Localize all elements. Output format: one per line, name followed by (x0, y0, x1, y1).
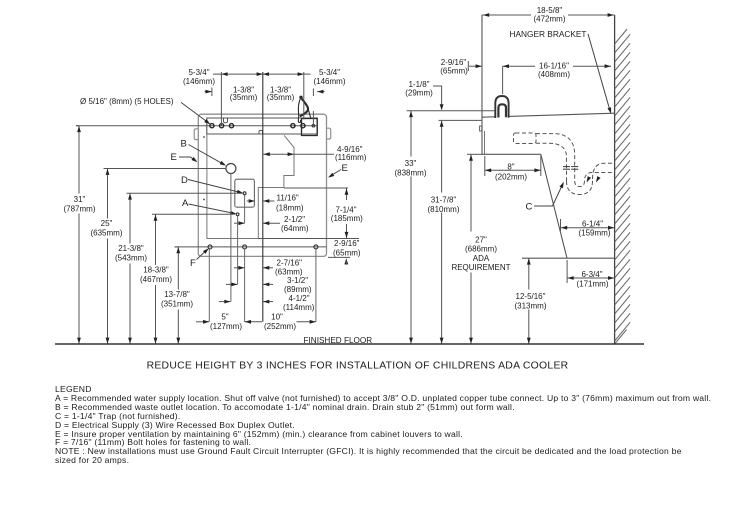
svg-text:2-1/2": 2-1/2" (284, 215, 305, 224)
svg-text:(635mm): (635mm) (90, 229, 122, 238)
extension from bolt hole F1 down (208, 249, 210, 322)
dimension 12-5/16 (528, 258, 530, 344)
bubbler base hook (298, 116, 300, 122)
union fittings on vertical pipe (563, 167, 578, 170)
svg-text:6-3/4": 6-3/4" (581, 270, 602, 279)
bolt hole F3 (314, 245, 318, 249)
svg-text:E: E (171, 152, 177, 163)
left dimension 31" (76, 125, 79, 127)
svg-text:(18mm): (18mm) (276, 203, 304, 212)
svg-text:(202mm): (202mm) (495, 173, 527, 182)
leader F (197, 250, 208, 260)
holes centerline through plate (76, 125, 317, 127)
leader hanger bracket (588, 34, 610, 111)
svg-text:REDUCE HEIGHT BY 3 INCHES FOR: REDUCE HEIGHT BY 3 INCHES FOR INSTALLATI… (147, 361, 569, 372)
wall hatching (615, 29, 631, 344)
svg-text:18-3/8": 18-3/8" (143, 266, 169, 275)
dimension 7-1/4 (284, 187, 348, 189)
leader E right (330, 170, 341, 177)
centerline (262, 72, 264, 322)
svg-text:(313mm): (313mm) (514, 301, 546, 310)
svg-text:5": 5" (221, 313, 228, 322)
svg-text:(114mm): (114mm) (283, 303, 315, 312)
svg-text:(787mm): (787mm) (63, 204, 95, 213)
plate notch bottom (259, 130, 263, 134)
svg-text:(810mm): (810mm) (427, 205, 459, 214)
supply inlet dashed box (514, 133, 537, 144)
svg-text:Ø 5/16" (8mm) (5 HOLES): Ø 5/16" (8mm) (5 HOLES) (80, 97, 174, 106)
dimension 33 (410, 111, 412, 344)
flow arrows on outlet pipe (585, 176, 591, 183)
svg-text:(543mm): (543mm) (115, 254, 147, 263)
bottom dimension line 5 and 10 (196, 321, 209, 323)
svg-text:(838mm): (838mm) (394, 169, 426, 178)
bolt holes row line (175, 246, 327, 248)
hole 2 (220, 124, 224, 128)
drain pipe bend dashed (536, 134, 575, 181)
svg-text:(467mm): (467mm) (140, 275, 172, 284)
plate keyhole notch left (224, 118, 228, 123)
dimension 2-7/16 (234, 267, 244, 269)
dimension 6-3/4 (566, 260, 568, 283)
svg-text:2-7/16": 2-7/16" (277, 259, 303, 268)
svg-text:2-9/16": 2-9/16" (334, 239, 360, 248)
extension from bolt hole F2 down (244, 249, 246, 322)
supply point A (236, 213, 239, 216)
hole 1 (210, 124, 214, 128)
svg-text:(185mm): (185mm) (331, 214, 363, 223)
right mounting ear (327, 128, 331, 139)
supply point D (243, 192, 246, 195)
svg-text:21-3/8": 21-3/8" (118, 244, 144, 253)
hidden back-panel dots (203, 136, 205, 138)
svg-text:6-1/4": 6-1/4" (582, 220, 603, 229)
dimension 16-1/16 (503, 65, 535, 67)
svg-text:10": 10" (271, 313, 283, 322)
bubbler side view outer (495, 96, 508, 118)
svg-text:(29mm): (29mm) (405, 89, 433, 98)
svg-text:(686mm): (686mm) (465, 245, 497, 254)
svg-text:C: C (526, 202, 533, 213)
extension line right (303, 72, 305, 120)
svg-text:25": 25" (101, 219, 113, 228)
leader E left (179, 157, 196, 161)
svg-text:(89mm): (89mm) (284, 285, 312, 294)
bubbler front view (299, 96, 302, 99)
svg-text:A: A (182, 198, 189, 209)
hole 3 (229, 124, 233, 128)
lower shroud line to wall (522, 257, 615, 259)
svg-text:4-1/2": 4-1/2" (289, 294, 310, 303)
outer arrow 5-3/4 right (317, 91, 324, 93)
floor line (55, 343, 644, 345)
dimension 31-7/8 (441, 120, 443, 344)
cooler top surface (482, 113, 615, 117)
leader 5 holes (181, 102, 210, 123)
svg-text:(472mm): (472mm) (533, 15, 565, 24)
bolt hole F1 (208, 245, 212, 249)
leader line from A circle down (237, 216, 239, 285)
svg-text:13-7/8": 13-7/8" (164, 290, 190, 299)
cooler front face (481, 15, 483, 154)
bolt hole F2 (243, 245, 247, 249)
svg-text:31": 31" (74, 195, 86, 204)
svg-text:33": 33" (405, 159, 417, 168)
svg-text:12-5/16": 12-5/16" (516, 292, 546, 301)
svg-text:11/16": 11/16" (277, 193, 299, 202)
svg-text:(252mm): (252mm) (264, 322, 296, 331)
front face inner line (484, 131, 486, 154)
svg-text:D: D (181, 175, 188, 186)
leader D (188, 180, 241, 193)
svg-text:HANGER BRACKET: HANGER BRACKET (510, 29, 587, 39)
left dimension 13-7/8" (175, 246, 179, 248)
svg-text:F: F (190, 258, 196, 269)
svg-text:E: E (342, 163, 348, 174)
left mounting ear (194, 129, 198, 140)
svg-text:(127mm): (127mm) (210, 322, 242, 331)
top dimension line 1-3/8 pair (213, 73, 311, 75)
svg-text:(35mm): (35mm) (267, 93, 295, 102)
svg-text:(351mm): (351mm) (161, 300, 193, 309)
svg-text:(146mm): (146mm) (313, 77, 345, 86)
svg-text:REQUIREMENT: REQUIREMENT (451, 263, 510, 272)
trap outlet top dashed (593, 163, 614, 179)
svg-text:3-1/2": 3-1/2" (287, 276, 308, 285)
dimension 27 ADA (470, 154, 472, 344)
front view cabinet outline (198, 114, 326, 256)
small rivet hole (312, 124, 315, 127)
wall line (614, 15, 616, 344)
svg-text:(64mm): (64mm) (281, 224, 309, 233)
left dimension 18-3/8" (152, 213, 235, 215)
leader C (534, 184, 563, 207)
extension bubbler center (502, 66, 504, 94)
extension line 33 level (407, 110, 495, 112)
dimension 6-1/4 (560, 219, 562, 231)
svg-text:(65mm): (65mm) (440, 66, 468, 75)
dimension 3-1/2 (226, 283, 237, 285)
svg-text:ADA: ADA (473, 254, 490, 263)
extension line 31-7/8 level (439, 119, 483, 121)
left dimension 25" (104, 168, 226, 170)
dimension 4-9/16 (263, 153, 334, 155)
dimension 4-1/2 (219, 301, 230, 303)
svg-text:5-3/4": 5-3/4" (188, 68, 209, 77)
front louver tick (480, 126, 482, 131)
svg-text:B: B (181, 139, 187, 150)
svg-text:5-3/4": 5-3/4" (319, 68, 340, 77)
dimension 2-9/16 front (258, 238, 359, 240)
outer arrow 5-3/4 left (205, 91, 212, 93)
trap U dashed (567, 179, 593, 195)
waste outlet circle B (226, 164, 236, 174)
dimension 2-1/2 (234, 222, 245, 224)
leader line from B circle down (230, 174, 232, 302)
leader line from D circle down (244, 195, 246, 224)
extension line 27 level (467, 153, 482, 155)
leader B (189, 145, 225, 165)
svg-text:(65mm): (65mm) (333, 248, 361, 257)
svg-text:7-1/4": 7-1/4" (335, 205, 356, 214)
svg-text:31-7/8": 31-7/8" (431, 195, 457, 204)
svg-text:(159mm): (159mm) (578, 229, 610, 238)
inner panel stepped outline (207, 134, 294, 239)
cooler bottom diagonal (541, 154, 567, 258)
dimension 8 inch (484, 156, 486, 176)
hanger bracket detail box right (302, 119, 318, 136)
svg-text:8": 8" (507, 162, 514, 171)
svg-text:27": 27" (475, 235, 487, 244)
svg-text:(116mm): (116mm) (335, 153, 367, 162)
bubbler side view inner (498, 104, 506, 117)
extension from bolt hole F3 down (315, 249, 317, 322)
left dimension 21-3/8" (127, 192, 243, 194)
hole 4 (291, 124, 295, 128)
legend text block (55, 385, 729, 465)
cooler bottom edge (482, 153, 541, 155)
dimension 18-5/8 (482, 14, 531, 16)
svg-text:(146mm): (146mm) (183, 77, 215, 86)
hole 5 (301, 124, 305, 128)
dimension 11/16 (247, 200, 255, 202)
electrical box D (235, 179, 255, 207)
top mounting plate (207, 118, 317, 134)
extension line hole2 (220, 72, 222, 126)
svg-text:(171mm): (171mm) (576, 279, 608, 288)
svg-text:(408mm): (408mm) (538, 70, 570, 79)
leader A (189, 204, 235, 213)
svg-text:(35mm): (35mm) (230, 93, 258, 102)
